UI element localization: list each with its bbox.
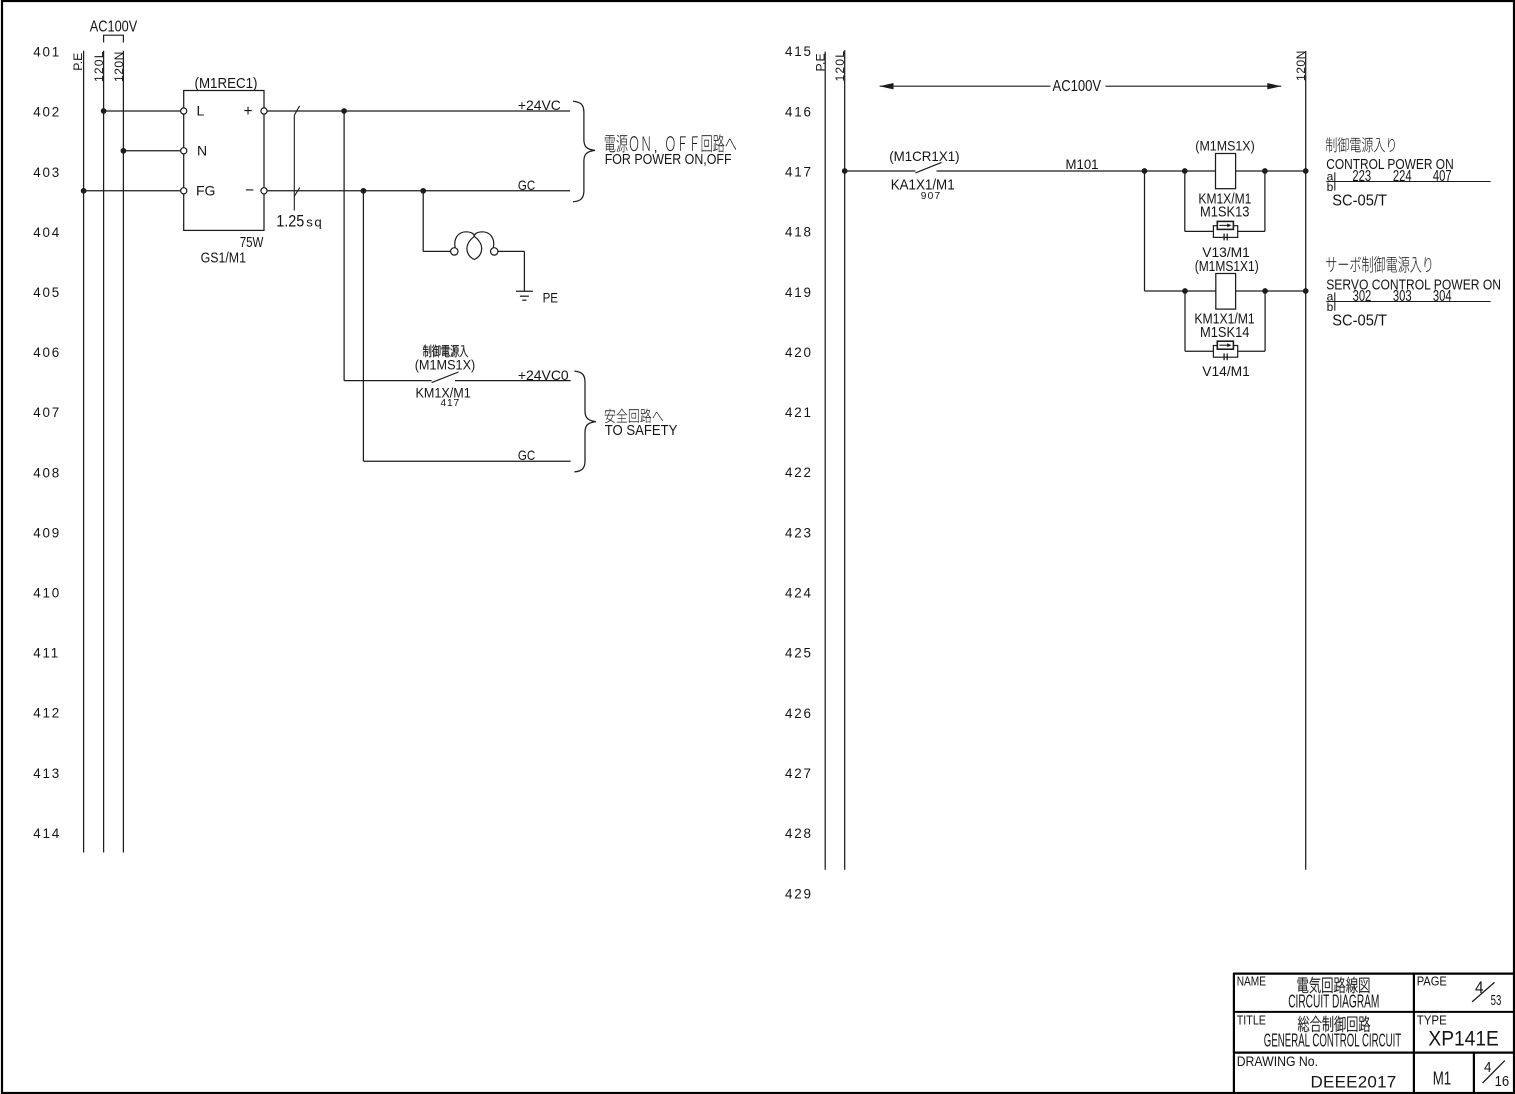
junction rung417/suppressor-left	[1182, 168, 1188, 174]
svg-text:+24VC: +24VC	[518, 97, 561, 113]
designator V14/M1	[1202, 364, 1250, 379]
terminal row a (223 224 407)	[1326, 167, 1490, 190]
svg-text:NAME: NAME	[1237, 975, 1267, 988]
title CIRCUIT DIAGRAM	[1288, 992, 1379, 1013]
svg-text:(M1CR1X1): (M1CR1X1)	[889, 149, 959, 164]
junction 120L/L-wire	[101, 108, 107, 114]
gauge leader line	[293, 115, 295, 210]
junction 120N/N-wire	[121, 148, 127, 154]
junction GC branch to filter	[420, 188, 426, 194]
svg-text:416: 416	[785, 104, 813, 119]
node label M101	[1066, 157, 1099, 172]
pin label -	[245, 182, 254, 199]
svg-text:402: 402	[33, 105, 61, 120]
annotation FOR POWER ON,OFF	[605, 150, 732, 167]
title block frame	[1233, 973, 1514, 1093]
svg-text:GENERAL CONTROL CIRCUIT: GENERAL CONTROL CIRCUIT	[1264, 1032, 1401, 1052]
designator KM1X/M1 (coil)	[1198, 190, 1251, 206]
title 電気回路線図	[1298, 977, 1370, 993]
bus label 120N (left)	[112, 51, 126, 82]
value label 75W	[240, 234, 264, 251]
svg-text:417: 417	[441, 398, 461, 409]
terminal +	[261, 108, 267, 114]
terminal row b (2)	[1327, 300, 1334, 314]
svg-text:(M1MS1X): (M1MS1X)	[415, 357, 476, 373]
junction +24VC branch	[341, 108, 347, 114]
svg-text:AC100V: AC100V	[90, 18, 138, 35]
contact KM1X/M1 blade	[432, 372, 459, 383]
title GENERAL CONTROL CIRCUIT	[1264, 1032, 1401, 1052]
svg-text:428: 428	[785, 826, 813, 841]
svg-text:4: 4	[1484, 1060, 1492, 1077]
svg-text:404: 404	[33, 225, 61, 240]
svg-text:(M1MS1X): (M1MS1X)	[1195, 138, 1254, 154]
svg-text:406: 406	[33, 345, 61, 360]
svg-text:+24VC0: +24VC0	[518, 367, 569, 383]
title block DRAWING No. cell	[1237, 1053, 1318, 1069]
socket M1SK13	[1200, 204, 1250, 220]
AC100V dimension arrow	[880, 83, 1282, 89]
value label 1.25sq	[276, 213, 323, 231]
bus wire 120L (right)	[844, 50, 846, 870]
rung 417 wire left	[845, 170, 916, 172]
svg-text:(M1REC1): (M1REC1)	[195, 75, 258, 92]
junction rung417/120N	[1303, 168, 1309, 174]
pin label L	[197, 103, 205, 119]
wire GC (rectifier - to right)	[267, 190, 570, 192]
svg-text:415: 415	[785, 44, 813, 59]
terminal row a (302 303 304)	[1326, 287, 1490, 310]
contact KM1X/M1 wire right (+24VC0)	[455, 380, 571, 382]
title 総合制御回路	[1298, 1016, 1370, 1032]
part number SC-05/T (2)	[1332, 312, 1387, 330]
brace to safety circuit	[574, 371, 595, 472]
designator KM1X1/M1 (coil)	[1194, 311, 1254, 327]
coil KM1X/M1 (M1MS1X)	[1216, 154, 1236, 189]
junction rung417/sub-branch	[1142, 168, 1148, 174]
annotation SERVO CONTROL POWER ON	[1326, 277, 1501, 293]
svg-text:427: 427	[785, 766, 813, 781]
svg-text:L: L	[197, 103, 205, 119]
contact KA1X1/M1 blade	[915, 162, 941, 173]
wire 120L to rectifier L	[104, 110, 181, 112]
net label +24VC0	[518, 367, 569, 383]
svg-text:421: 421	[785, 405, 813, 420]
rung 419 wire	[1145, 290, 1306, 292]
wire 120N to rectifier N	[123, 150, 180, 152]
junction rung419/suppressor-right	[1262, 288, 1268, 294]
svg-text:GC: GC	[518, 177, 535, 193]
annotation 制御電源入	[423, 345, 468, 358]
terminal FG	[181, 188, 187, 194]
pin label FG	[196, 182, 215, 198]
annotation CONTROL POWER ON	[1326, 156, 1453, 172]
brace to power on/off circuit	[573, 101, 595, 202]
svg-text:16: 16	[1495, 1072, 1510, 1089]
wire GC down-branch to safety GC	[362, 191, 364, 461]
svg-text:426: 426	[785, 706, 813, 721]
line filter left terminal	[451, 248, 458, 255]
suppressor V14 branch wires	[1185, 291, 1265, 351]
svg-text:403: 403	[33, 165, 61, 180]
svg-text:GC: GC	[518, 447, 535, 463]
label (M1MS1X) right	[1195, 138, 1254, 154]
junction rung419/suppressor-left	[1182, 288, 1188, 294]
svg-text:414: 414	[33, 826, 61, 841]
svg-text:−: −	[245, 182, 254, 199]
label (M1CR1X1)	[889, 149, 959, 164]
row numbers 415-429	[785, 44, 813, 901]
wire gauge slash on GC	[294, 188, 300, 197]
net label +24VC	[518, 97, 561, 113]
designator V13/M1	[1202, 245, 1250, 260]
svg-text:413: 413	[33, 766, 61, 781]
bus wire P.E (left)	[83, 51, 85, 853]
svg-text:AC100V: AC100V	[1053, 78, 1102, 95]
rung 417 wire right	[937, 170, 1306, 172]
svg-text:411: 411	[33, 646, 60, 661]
bus label 120L (left)	[92, 50, 106, 82]
svg-text:408: 408	[33, 465, 61, 480]
net label AC100V (left)	[90, 18, 138, 35]
svg-text:CIRCUIT DIAGRAM: CIRCUIT DIAGRAM	[1288, 992, 1379, 1013]
svg-text:N: N	[197, 142, 207, 158]
svg-text:407: 407	[33, 405, 61, 420]
designator KM1X/M1	[416, 385, 471, 401]
svg-text:FOR POWER ON,OFF: FOR POWER ON,OFF	[605, 150, 732, 167]
svg-text:907: 907	[921, 191, 942, 202]
svg-text:417: 417	[785, 165, 813, 180]
junction GC branch to safety	[361, 188, 367, 194]
junction 120L/rung417	[842, 168, 848, 174]
title block NAME cell	[1237, 975, 1267, 988]
label (M1REC1)	[195, 75, 258, 92]
row numbers 401-414	[33, 45, 61, 841]
svg-text:+: +	[244, 103, 253, 120]
cross-reference 417	[441, 398, 461, 409]
svg-text:PAGE: PAGE	[1417, 974, 1447, 989]
sub-branch wire down to rung 419	[1144, 171, 1146, 291]
svg-text:TO SAFETY: TO SAFETY	[605, 421, 678, 438]
label (M1MS1X) left	[415, 357, 476, 373]
annotation サーボ制御電源入り	[1326, 256, 1431, 273]
svg-text:sq: sq	[306, 215, 323, 230]
wire down to PE ground	[523, 251, 525, 291]
svg-text:418: 418	[785, 225, 813, 240]
AC100V bracket	[104, 35, 124, 42]
drawing number DEEE2017	[1311, 1073, 1397, 1092]
svg-text:PE: PE	[543, 289, 559, 305]
svg-text:419: 419	[785, 285, 813, 300]
svg-text:(M1MS1X1): (M1MS1X1)	[1195, 258, 1259, 274]
wire GC down-branch to line filter	[422, 191, 424, 252]
svg-text:429: 429	[785, 886, 813, 901]
annotation 電源ON,OFF回路へ	[605, 134, 736, 154]
terminal row b	[1327, 180, 1334, 194]
sheet fraction 4/16	[1483, 1060, 1510, 1090]
svg-text:410: 410	[33, 586, 61, 601]
svg-text:423: 423	[785, 525, 813, 540]
svg-text:TYPE: TYPE	[1417, 1013, 1447, 1028]
svg-text:53: 53	[1491, 992, 1502, 1008]
wire +24VC (rectifier + to right)	[267, 110, 570, 112]
svg-text:409: 409	[33, 525, 61, 540]
bus label 120N (right)	[1294, 50, 1308, 81]
svg-text:4: 4	[1475, 978, 1484, 997]
line filter / choke wire left	[423, 250, 450, 252]
svg-text:424: 424	[785, 586, 813, 601]
svg-text:V14/M1: V14/M1	[1202, 364, 1250, 379]
svg-text:405: 405	[33, 285, 61, 300]
line filter winding arcs	[455, 232, 494, 260]
surge suppressor V13/M1	[1213, 221, 1237, 240]
bus wire 120N (left)	[122, 51, 124, 853]
bus wire 120N (right)	[1305, 51, 1307, 870]
svg-text:GS1/M1: GS1/M1	[201, 249, 246, 265]
pin label N	[197, 142, 207, 158]
junction rung417/suppressor-right	[1262, 168, 1268, 174]
svg-text:422: 422	[785, 465, 813, 480]
wire gauge slash on +24VC	[294, 106, 299, 116]
svg-text:1.25: 1.25	[276, 213, 304, 231]
svg-text:M101: M101	[1066, 157, 1099, 172]
line filter right terminal	[491, 248, 498, 255]
bus wire 120L (left)	[103, 51, 105, 853]
type XP141E	[1428, 1028, 1498, 1051]
suppressor V13 branch wires	[1185, 171, 1265, 231]
wire P.E to rectifier FG	[84, 190, 181, 192]
annotation 制御電源入り	[1326, 137, 1395, 152]
page fraction 4/53	[1472, 978, 1501, 1008]
bus label P.E (right)	[814, 53, 828, 71]
svg-text:75W: 75W	[240, 234, 264, 251]
svg-text:FG: FG	[196, 182, 215, 198]
bus wire P.E (right)	[824, 52, 826, 870]
terminal -	[261, 188, 267, 194]
svg-text:M1SK14: M1SK14	[1200, 324, 1250, 340]
title block TITLE cell	[1237, 1012, 1266, 1027]
title block TYPE cell	[1417, 1013, 1447, 1028]
sheet M1	[1433, 1068, 1451, 1089]
svg-text:425: 425	[785, 646, 813, 661]
designator KA1X1/M1	[891, 176, 955, 193]
pin label +	[244, 103, 253, 120]
title block PAGE cell	[1417, 974, 1447, 989]
cross-reference 907	[921, 191, 942, 202]
bus label P.E (left)	[71, 53, 85, 71]
wire GC to safety	[363, 460, 570, 462]
svg-text:DEEE2017: DEEE2017	[1311, 1073, 1397, 1092]
annotation TO SAFETY	[605, 421, 678, 438]
surge suppressor V14/M1	[1213, 341, 1237, 360]
net label GC (lower)	[518, 447, 535, 463]
svg-text:SC-05/T: SC-05/T	[1332, 312, 1387, 330]
coil KM1X1/M1 (M1MS1X1)	[1216, 274, 1236, 310]
designator GS1/M1	[201, 249, 246, 265]
junction rung419/120N	[1303, 288, 1309, 294]
net label AC100V (right)	[1053, 78, 1102, 95]
junction P.E/FG-wire	[81, 188, 87, 194]
contact KM1X/M1 wire left	[344, 380, 432, 382]
svg-text:M1: M1	[1433, 1068, 1451, 1089]
terminal N	[181, 148, 187, 154]
terminal L	[181, 108, 187, 114]
svg-text:DRAWING No.: DRAWING No.	[1237, 1053, 1318, 1069]
rectifier GS1/M1 (M1REC1) box	[184, 91, 264, 231]
annotation 安全回路へ	[605, 409, 663, 423]
ground PE symbol	[516, 291, 533, 300]
svg-text:412: 412	[33, 706, 61, 721]
ground label PE	[543, 289, 559, 305]
net label GC (upper)	[518, 177, 535, 193]
line filter wire right	[498, 250, 525, 252]
bus label 120L (right)	[833, 50, 847, 82]
part number SC-05/T (1)	[1332, 192, 1387, 210]
svg-text:TITLE: TITLE	[1237, 1012, 1266, 1027]
svg-text:M1SK13: M1SK13	[1200, 204, 1250, 220]
svg-text:SC-05/T: SC-05/T	[1332, 192, 1387, 210]
wire +24VC down-branch	[343, 111, 345, 381]
label (M1MS1X1)	[1195, 258, 1259, 274]
svg-text:XP141E: XP141E	[1428, 1028, 1498, 1051]
socket M1SK14	[1200, 324, 1250, 340]
svg-text:420: 420	[785, 345, 813, 360]
svg-text:401: 401	[33, 45, 61, 60]
